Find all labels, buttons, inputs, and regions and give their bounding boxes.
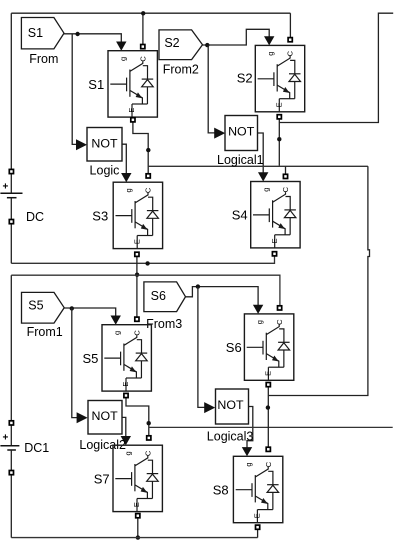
svg-text:+: + (2, 182, 8, 193)
wire S2 emitter down to mid rail (278, 119, 280, 166)
arrow into S5 gate (111, 316, 121, 325)
port S1 C (141, 45, 145, 49)
wire from tag S2 to S2 gate (203, 29, 270, 45)
port S3 E (135, 252, 139, 256)
svg-text:Logical3: Logical3 (207, 429, 254, 443)
NOT gate Logical3 (207, 389, 254, 443)
wire top rail (11, 12, 290, 14)
svg-text:NOT: NOT (217, 398, 244, 412)
junction S3E vertical on rail2 (135, 273, 139, 277)
port DC top (9, 169, 13, 173)
svg-text:S4: S4 (232, 208, 248, 223)
port S8 C (266, 447, 270, 451)
arrow into S8 gate (242, 447, 252, 456)
wire DC1 bottom to bottom rail (10, 475, 12, 538)
junction top rail / S1 C (141, 11, 145, 15)
svg-text:Logic: Logic (90, 164, 120, 178)
igbt S3 (92, 182, 162, 248)
wire S1 emitter to S3 collector (133, 122, 148, 174)
wire NOT Logic output to S3 gate (122, 144, 126, 174)
port S2 C (288, 38, 292, 42)
svg-text:DC: DC (26, 210, 44, 224)
wire S5 emitter to S7 collector (126, 398, 149, 435)
arrow into S1 gate (116, 42, 126, 51)
svg-text:S8: S8 (213, 482, 229, 497)
port S6 C (278, 306, 282, 310)
arrow into NOT Logical3 input (204, 402, 215, 413)
svg-text:S6: S6 (226, 340, 242, 355)
dc source DC (0, 172, 44, 225)
port DC1 top (9, 421, 13, 425)
port S2 E (277, 115, 281, 119)
svg-text:S6: S6 (151, 289, 166, 303)
svg-text:S7: S7 (94, 472, 110, 487)
arrow into NOT Logic input (76, 139, 87, 150)
svg-text:S2: S2 (164, 36, 179, 50)
arrow into NOT Logical2 input (77, 412, 88, 423)
wire rail2 (top of lower bridge) (11, 275, 280, 305)
from tag S1 (21, 18, 64, 67)
arrow into S7 gate (121, 436, 131, 445)
svg-text:NOT: NOT (228, 124, 255, 138)
port S4 E (272, 252, 276, 256)
igbt S6 (226, 314, 294, 380)
svg-text:NOT: NOT (92, 409, 119, 423)
junction from tag S1 branch (75, 32, 79, 36)
wire from tag S6 to S6 gate (186, 287, 259, 306)
wire NOT Logical3 output to S8 gate (247, 407, 253, 449)
svg-text:From2: From2 (163, 62, 199, 76)
port S8 E (256, 525, 260, 529)
from tag S2 (159, 30, 203, 76)
wire S3 emitter down to S5 collector (136, 257, 138, 317)
wire NOT Logical1 output to S4 gate (258, 133, 264, 173)
svg-text:S3: S3 (92, 209, 108, 224)
NOT gate Logical1 (217, 116, 264, 168)
arrow into S4 gate (258, 172, 268, 181)
wire S6 emitter to S8 collector (267, 387, 269, 447)
svg-text:Logical1: Logical1 (217, 153, 264, 167)
junction bottom rail (136, 535, 140, 539)
port S3 C (146, 174, 150, 178)
dc source DC1 (0, 423, 49, 473)
svg-text:DC1: DC1 (24, 441, 49, 455)
wire from tag S1 branch down to NOT Logic (72, 34, 77, 145)
wire bottom rail (11, 537, 257, 539)
port S5 E (124, 393, 128, 397)
port S6 E (266, 383, 270, 387)
from tag S5 (22, 292, 65, 339)
port S4 C (283, 174, 287, 178)
arrow into NOT Logical1 input (214, 128, 225, 139)
wire lower mid rail (149, 426, 393, 428)
junction from tag S6 branch (196, 284, 200, 288)
wire right rail down with jog (268, 166, 369, 395)
svg-text:S5: S5 (82, 351, 98, 366)
wire top right hook (279, 13, 393, 122)
wire from tag S5 to S5 gate (64, 308, 116, 317)
svg-text:S1: S1 (88, 77, 104, 92)
port S5 C (135, 317, 139, 321)
port DC1 bottom (9, 471, 13, 475)
wire top rail to S1 collector (142, 13, 144, 44)
arrow into S6 gate (253, 305, 263, 314)
wire mid rail (S1E/S2E to right side) (148, 165, 368, 167)
svg-text:S2: S2 (237, 70, 253, 85)
svg-text:From: From (29, 52, 58, 66)
junction on lower rail of top bridge (145, 261, 149, 265)
svg-text:S5: S5 (28, 299, 43, 313)
port S1 E (131, 118, 135, 122)
port DC bottom (9, 220, 13, 224)
wire NOT Logical2 output to S7 gate (122, 417, 126, 437)
port S7 C (147, 436, 151, 440)
junction on S1 emitter vertical (146, 148, 150, 152)
junction from tag S2 branch (205, 43, 209, 47)
wire top rail corner down to S2 collector (289, 13, 291, 37)
port S7 E (136, 514, 140, 518)
svg-text:NOT: NOT (91, 137, 118, 151)
igbt S5 (82, 325, 151, 391)
wire from tag S6 branch down to NOT Logical3 (198, 287, 205, 408)
wire left rail upper (DC top) (10, 13, 12, 169)
junction on S2 emitter vertical (277, 137, 281, 141)
igbt S2 (237, 45, 305, 111)
NOT gate Logical2 (79, 401, 126, 452)
igbt S4 (232, 182, 300, 248)
wire S8 emitter to bottom rail (257, 529, 259, 537)
wire mid rail drop to S4 collector (285, 166, 287, 174)
igbt S7 (94, 445, 163, 511)
wire from tag S1 to S1 gate (64, 34, 121, 43)
wire S7 emitter down to bottom rail (137, 518, 139, 538)
arrow into S3 gate (121, 173, 131, 182)
igbt S8 (213, 456, 283, 522)
junction on S6 emitter vertical (266, 405, 270, 409)
igbt S1 (88, 51, 157, 117)
wire left rail lower (to DC1 top) (10, 275, 12, 420)
svg-text:S1: S1 (28, 26, 43, 40)
wire from tag S2 branch down to NOT Logical1 (208, 45, 215, 133)
wire S4 emitter to lower-left rail (11, 256, 274, 263)
wire from tag S5 branch down to NOT Logical2 (72, 308, 78, 418)
wire DC bottom to rail (10, 224, 12, 263)
svg-text:From1: From1 (27, 325, 63, 339)
NOT gate Logic (87, 128, 122, 178)
arrow into S2 gate (264, 36, 274, 45)
from tag S6 (144, 282, 186, 331)
junction from tag S5 branch (70, 306, 74, 310)
junction on S5 emitter vertical (147, 421, 151, 425)
svg-text:+: + (2, 432, 8, 443)
